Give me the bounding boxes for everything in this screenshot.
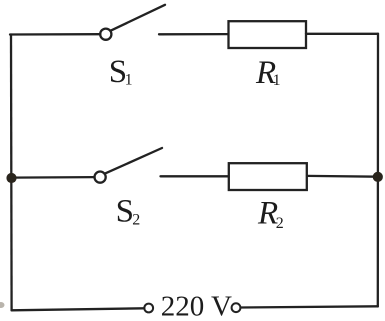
- wire bottom-left to source: [12, 308, 145, 310]
- svg-text:220 V: 220 V: [161, 291, 232, 321]
- wire right vertical: [377, 34, 380, 307]
- resistor R2: [229, 163, 307, 190]
- node right junction: [373, 172, 383, 182]
- source terminal left: [144, 304, 153, 313]
- scan smudge bottom-left: [0, 302, 5, 308]
- node left junction: [6, 173, 16, 183]
- wire R1 to right rail: [306, 33, 378, 35]
- wire left vertical: [10, 35, 13, 311]
- source terminal right: [232, 303, 241, 312]
- wire middle-left horizontal: [12, 176, 95, 179]
- svg-text:2: 2: [132, 211, 140, 228]
- wire S1 to R1: [159, 33, 228, 36]
- svg-text:1: 1: [273, 72, 281, 89]
- switch S2: [95, 148, 163, 183]
- resistor R1: [229, 21, 307, 48]
- wire R2 to right node: [307, 175, 378, 178]
- switch S1: [100, 5, 165, 40]
- wire S2 to R2: [161, 175, 229, 177]
- svg-text:2: 2: [276, 215, 284, 232]
- wire top-left horizontal: [10, 33, 100, 36]
- wire source to bottom-right: [241, 306, 378, 307]
- svg-text:1: 1: [125, 72, 133, 89]
